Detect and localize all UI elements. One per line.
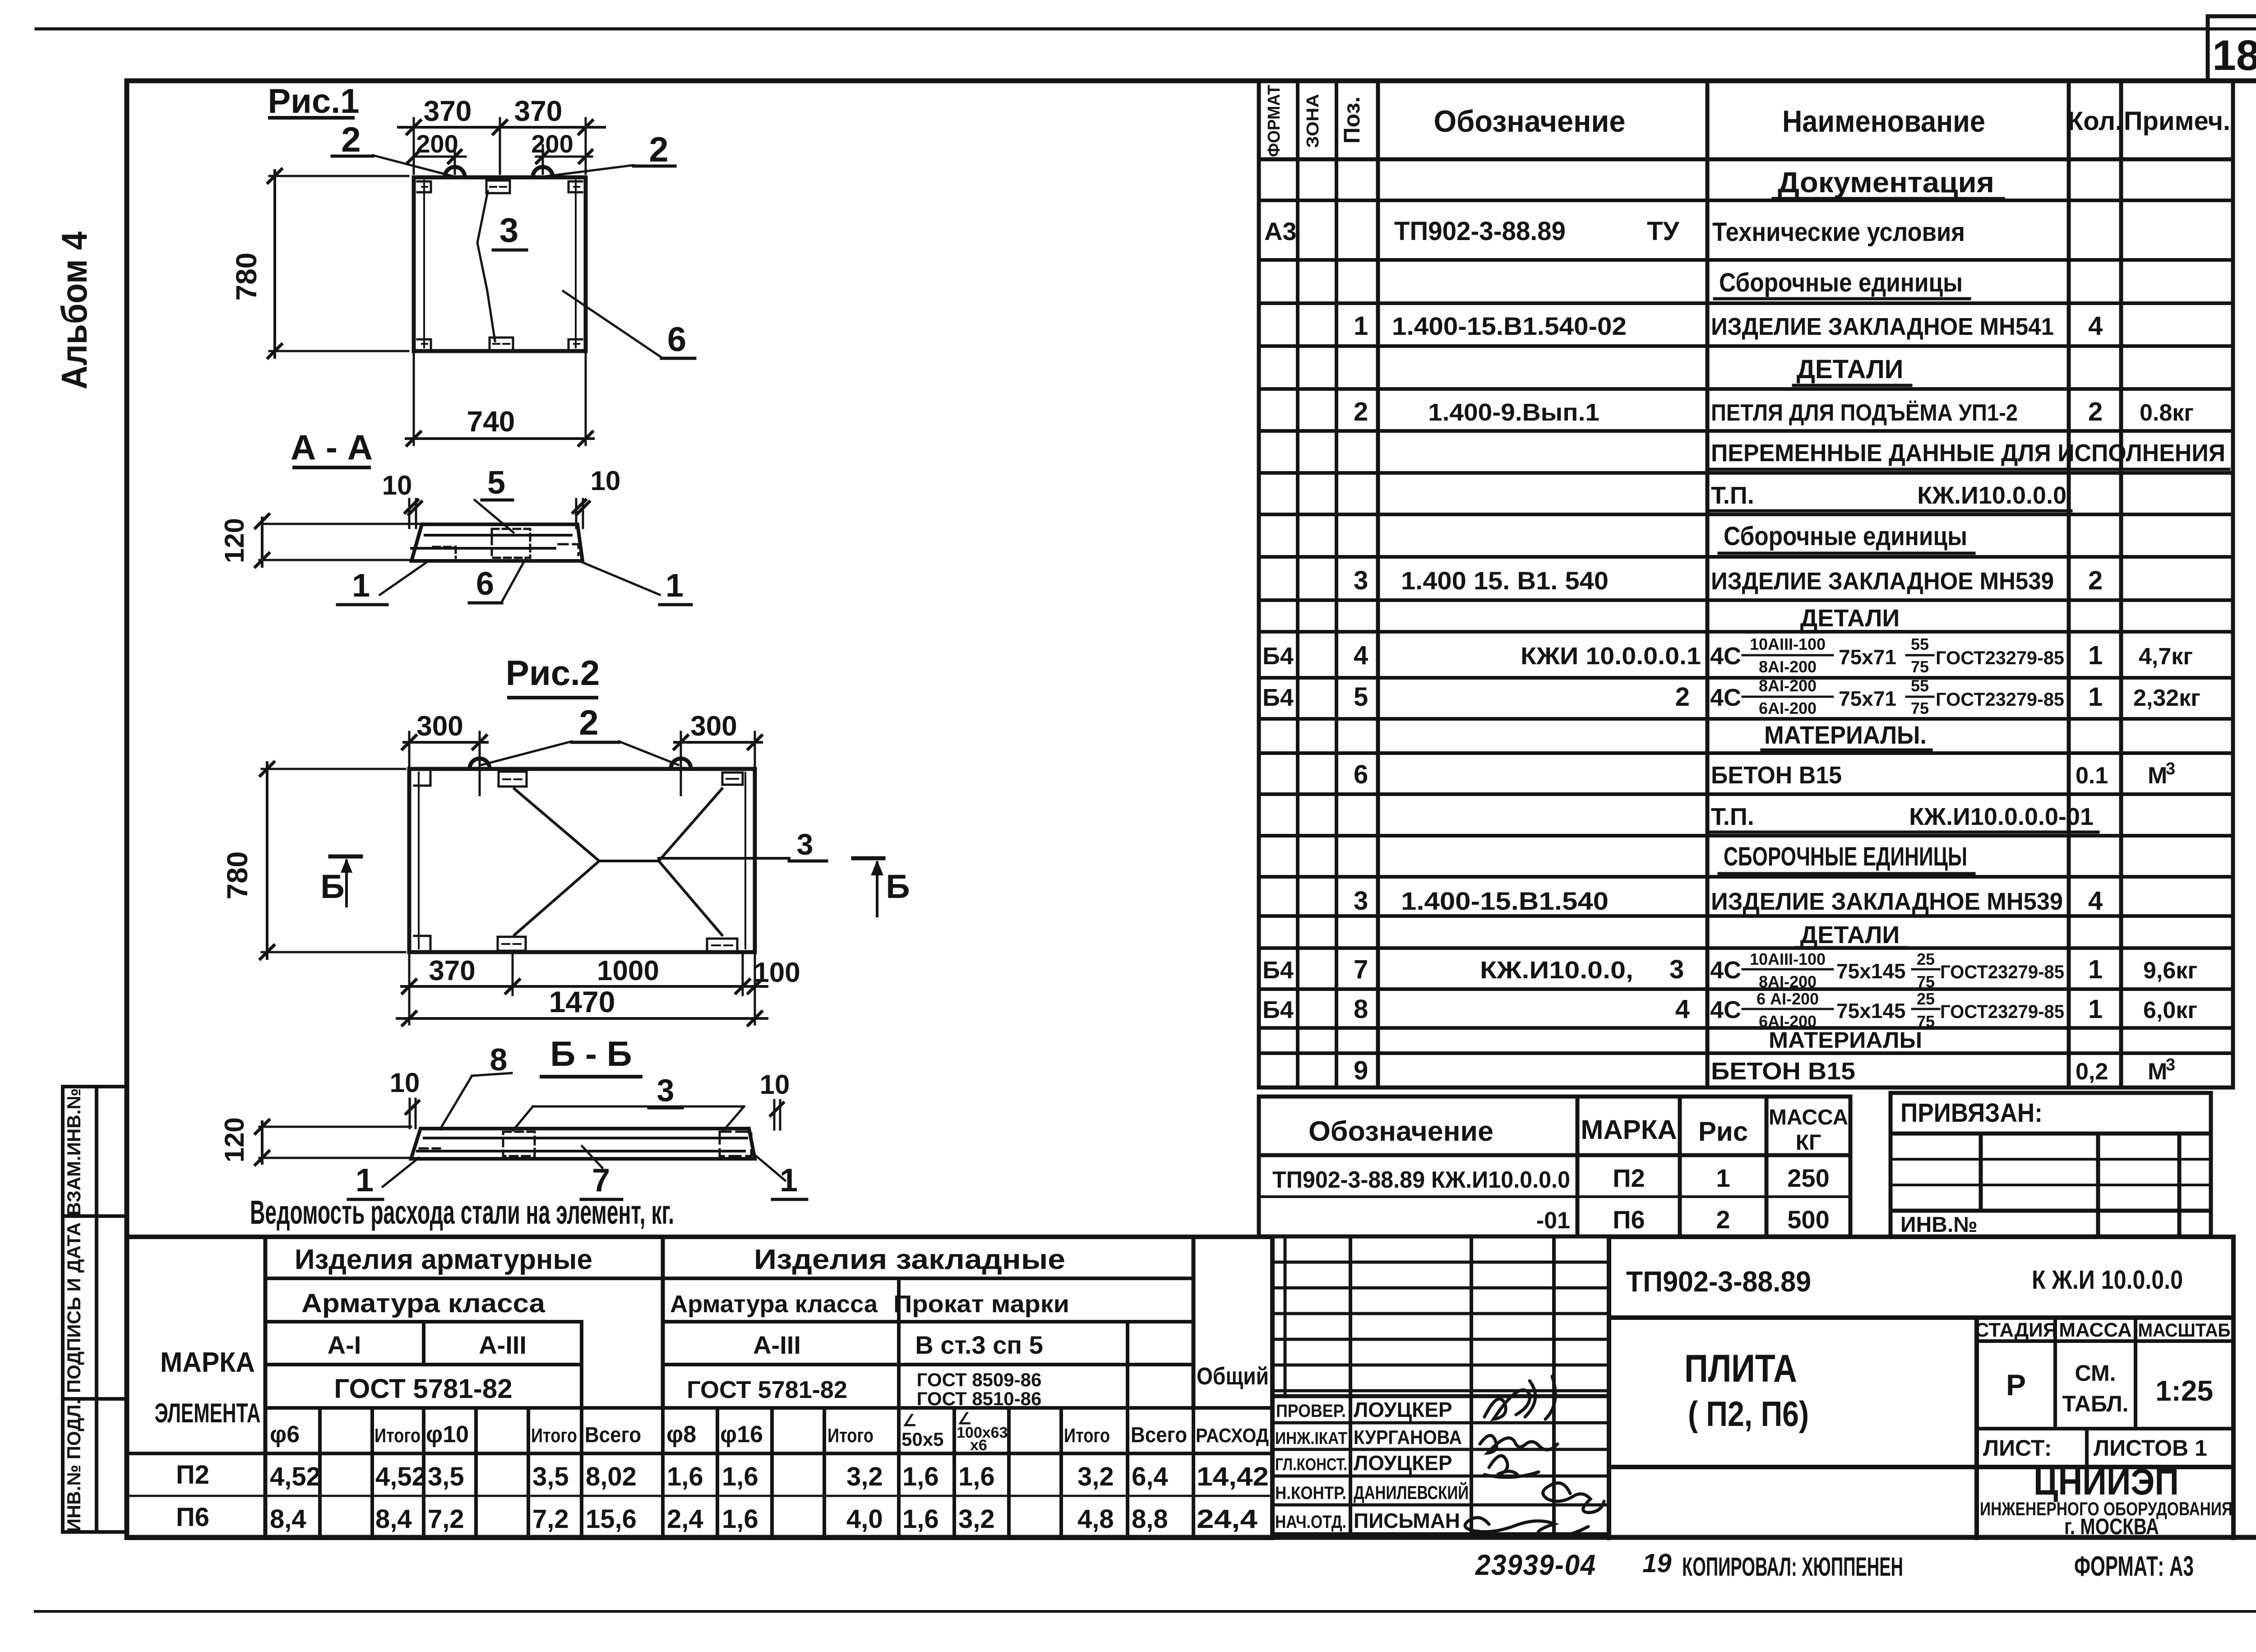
fig1 dim 740 [406, 354, 593, 445]
svg-text:1,6: 1,6 [902, 1504, 939, 1534]
svg-text:П6: П6 [176, 1503, 209, 1532]
privyazan texts [1900, 1098, 2043, 1237]
svg-text:ГОСТ23279-85: ГОСТ23279-85 [1936, 647, 2064, 668]
svg-text:МАССА: МАССА [2059, 1319, 2132, 1341]
svg-text:8АI-200: 8АI-200 [1759, 972, 1817, 991]
svg-text:4,52: 4,52 [270, 1462, 321, 1491]
svg-text:ИЗДЕЛИЕ ЗАКЛАДНОЕ МН539: ИЗДЕЛИЕ ЗАКЛАДНОЕ МН539 [1711, 568, 2054, 595]
svg-text:МАССА: МАССА [1769, 1106, 1848, 1129]
svg-text:М: М [2148, 763, 2167, 789]
svg-text:75х145: 75х145 [1836, 959, 1906, 983]
svg-text:4С: 4С [1710, 643, 1741, 670]
svg-text:КГ: КГ [1796, 1131, 1821, 1155]
svg-text:3,2: 3,2 [958, 1504, 995, 1534]
signature grid lines [1272, 1237, 1609, 1538]
fig2 section marker B left [320, 856, 361, 906]
svg-text:3: 3 [1669, 955, 1684, 984]
svg-text:ГОСТ23279-85: ГОСТ23279-85 [1940, 961, 2064, 982]
svg-text:БЕТОН В15: БЕТОН В15 [1711, 1058, 1855, 1085]
svg-text:300: 300 [690, 711, 737, 742]
svg-text:2,32кг: 2,32кг [2133, 685, 2201, 711]
section A-A label 5 with leader [475, 465, 513, 532]
svg-text:6 АI-200: 6 АI-200 [1757, 990, 1819, 1008]
svg-text:1:25: 1:25 [2155, 1374, 2213, 1407]
spec row: sborochnye edinicy 3 [1719, 842, 1974, 874]
svg-text:φ8: φ8 [666, 1421, 696, 1448]
spec row: pos2 petlya [1354, 397, 2194, 426]
svg-text:φ16: φ16 [720, 1421, 763, 1448]
spec row: beton2 [1354, 1055, 2175, 1085]
fig2 label 2 with tent leader [482, 703, 678, 765]
fig1 dim 200-200 [407, 145, 592, 174]
svg-text:55: 55 [1911, 635, 1929, 653]
svg-text:СМ.: СМ. [2075, 1360, 2116, 1386]
fig2 title [506, 653, 600, 698]
sheet number box 18 [2208, 16, 2256, 81]
left stamp label: podpis i data [63, 1222, 84, 1393]
svg-text:370: 370 [514, 95, 563, 127]
svg-text:ТУ: ТУ [1647, 217, 1679, 246]
section B-B dim 10 right [760, 1069, 790, 1129]
svg-text:В ст.3 сп 5: В ст.3 сп 5 [915, 1331, 1043, 1359]
svg-text:10АIII-100: 10АIII-100 [1750, 635, 1826, 653]
svg-text:ГОСТ 8510-86: ГОСТ 8510-86 [917, 1388, 1042, 1409]
svg-text:3: 3 [1354, 566, 1368, 595]
svg-text:х6: х6 [970, 1437, 987, 1454]
svg-text:Б4: Б4 [1262, 684, 1294, 711]
fig2 dims 370-1000-100 [402, 953, 767, 1024]
svg-text:Б: Б [320, 868, 344, 905]
svg-text:780: 780 [221, 851, 254, 900]
steel table grid [127, 1237, 1272, 1538]
svg-text:Итого: Итого [531, 1425, 577, 1447]
svg-text:ПРОВЕР.: ПРОВЕР. [1276, 1401, 1346, 1421]
svg-text:А-III: А-III [753, 1331, 801, 1359]
svg-text:0,2: 0,2 [2076, 1059, 2108, 1085]
svg-text:Б: Б [886, 868, 910, 905]
svg-text:Общий: Общий [1197, 1363, 1269, 1390]
svg-text:4,7кг: 4,7кг [2139, 643, 2193, 670]
fig1 label 2 left with leader [332, 120, 452, 176]
svg-text:Обозначение: Обозначение [1308, 1116, 1493, 1147]
steel table title [250, 1194, 674, 1231]
svg-text:Сборочные единицы: Сборочные единицы [1719, 268, 1963, 297]
svg-text:КЖ.И10.0.0,: КЖ.И10.0.0, [1480, 957, 1633, 984]
svg-text:( П2, П6): ( П2, П6) [1688, 1394, 1809, 1434]
section B-B label 8 [440, 1042, 512, 1129]
svg-text:Итого: Итого [1064, 1425, 1110, 1447]
svg-text:Всего: Всего [585, 1423, 641, 1447]
svg-text:8АI-200: 8АI-200 [1759, 676, 1817, 695]
svg-text:ТП902-3-88.89 КЖ.И10.0.0.0: ТП902-3-88.89 КЖ.И10.0.0.0 [1272, 1167, 1570, 1193]
svg-text:2: 2 [1716, 1205, 1730, 1234]
fig2 dim 300 right [674, 732, 762, 795]
svg-text:Рис: Рис [1698, 1116, 1748, 1147]
spec row: dokumentaciya [1773, 166, 2003, 199]
svg-text:7,2: 7,2 [428, 1504, 464, 1534]
svg-text:3,5: 3,5 [428, 1462, 464, 1491]
left stamp label: vzam inv [63, 1088, 84, 1216]
svg-text:Рис.2: Рис.2 [506, 653, 600, 693]
spec row: TP KJI10000-01 [1710, 803, 2098, 832]
svg-text:4,8: 4,8 [1077, 1504, 1114, 1534]
svg-text:ЗОНА: ЗОНА [1304, 94, 1322, 148]
svg-text:500: 500 [1787, 1205, 1829, 1234]
svg-text:φ6: φ6 [270, 1421, 300, 1448]
svg-text:Н.КОНТР.: Н.КОНТР. [1275, 1483, 1346, 1503]
svg-text:ГОСТ 5781-82: ГОСТ 5781-82 [334, 1374, 512, 1404]
svg-text:3,5: 3,5 [532, 1462, 569, 1491]
spec row: peremennye dannye [1710, 440, 2229, 469]
svg-text:10АIII-100: 10АIII-100 [1750, 950, 1826, 968]
svg-text:19: 19 [1642, 1549, 1672, 1578]
svg-text:1,6: 1,6 [958, 1462, 995, 1491]
fig2 plate outline [409, 769, 755, 952]
svg-text:КОПИРОВАЛ: ХЮППЕНЕН: КОПИРОВАЛ: ХЮППЕНЕН [1682, 1552, 1903, 1582]
svg-text:П6: П6 [1613, 1205, 1645, 1234]
steel table phi row [270, 1363, 1269, 1454]
svg-text:200: 200 [416, 130, 458, 158]
top scan edge line [36, 28, 2256, 31]
svg-text:3: 3 [2166, 1055, 2175, 1074]
svg-text:А - А: А - А [291, 427, 373, 467]
fig2 embedded pads [498, 772, 743, 952]
svg-text:23939-04: 23939-04 [1475, 1549, 1596, 1581]
svg-text:ИЗДЕЛИЕ ЗАКЛАДНОЕ МН539: ИЗДЕЛИЕ ЗАКЛАДНОЕ МН539 [1711, 888, 2063, 915]
svg-text:4С: 4С [1710, 957, 1741, 984]
svg-text:300: 300 [416, 711, 463, 742]
svg-text:П2: П2 [1613, 1164, 1645, 1192]
fig2 dim 300 left [402, 732, 487, 795]
svg-text:Альбом 4: Альбом 4 [54, 231, 94, 389]
spec row: pos3b MN539 [1354, 886, 2103, 916]
fig1 label 3 with leader [477, 191, 527, 341]
svg-text:0.1: 0.1 [2076, 763, 2108, 789]
svg-text:ВЗАМ.ИНВ.№: ВЗАМ.ИНВ.№ [63, 1088, 84, 1216]
svg-text:ГОСТ23279-85: ГОСТ23279-85 [1936, 689, 2064, 710]
section A-A label 1 left [337, 561, 429, 605]
svg-text:Т.П.: Т.П. [1711, 803, 1754, 830]
svg-text:1: 1 [2088, 995, 2103, 1024]
svg-text:8: 8 [1354, 995, 1368, 1024]
svg-text:2: 2 [2088, 397, 2103, 426]
svg-text:50х5: 50х5 [901, 1429, 943, 1450]
fig1 lifting loops [445, 167, 553, 177]
svg-text:Кол.: Кол. [2067, 106, 2122, 136]
fig2 section marker B right [853, 858, 910, 916]
svg-text:Б4: Б4 [1262, 996, 1294, 1023]
svg-text:Р: Р [2006, 1368, 2026, 1402]
svg-text:ТП902-3-88.89: ТП902-3-88.89 [1394, 217, 1566, 246]
svg-text:10: 10 [591, 466, 621, 496]
svg-text:Изделия арматурные: Изделия арматурные [295, 1244, 592, 1275]
signature squiggles [1465, 1376, 1604, 1537]
svg-text:ИНВ.№ ПОДЛ.: ИНВ.№ ПОДЛ. [63, 1399, 84, 1532]
svg-text:1.400-15.В1.540-02: 1.400-15.В1.540-02 [1392, 312, 1627, 340]
svg-text:75х71: 75х71 [1839, 645, 1896, 669]
svg-text:14,42: 14,42 [1197, 1462, 1269, 1491]
svg-text:Б - Б: Б - Б [550, 1034, 632, 1074]
svg-text:МАТЕРИАЛЫ: МАТЕРИАЛЫ [1769, 1027, 1922, 1053]
title block grid [1609, 1237, 2233, 1538]
svg-text:ДЕТАЛИ: ДЕТАЛИ [1800, 605, 1900, 632]
svg-text:1000: 1000 [597, 955, 659, 986]
svg-text:ТАБЛ.: ТАБЛ. [2062, 1391, 2128, 1416]
svg-text:1.400-15.В1.540: 1.400-15.В1.540 [1401, 887, 1609, 915]
svg-text:Всего: Всего [1131, 1423, 1187, 1447]
svg-text:Изделия закладные: Изделия закладные [754, 1244, 1065, 1275]
svg-text:ПЕРЕМЕННЫЕ ДАННЫЕ ДЛЯ ИСПОЛНЕН: ПЕРЕМЕННЫЕ ДАННЫЕ ДЛЯ ИСПОЛНЕНИЯ [1711, 440, 2225, 467]
svg-text:ДЕТАЛИ: ДЕТАЛИ [1797, 355, 1904, 384]
svg-text:4: 4 [2088, 886, 2103, 916]
svg-text:2: 2 [579, 703, 598, 742]
svg-text:10: 10 [760, 1069, 790, 1100]
spec row: TP KJI10000 [1710, 482, 2071, 511]
spec row: tehnicheskie usloviya [1264, 217, 1965, 247]
svg-text:25: 25 [1917, 950, 1935, 968]
svg-text:Рис.1: Рис.1 [268, 82, 359, 120]
svg-text:2: 2 [1675, 682, 1690, 712]
svg-text:φ10: φ10 [426, 1421, 469, 1448]
svg-text:∠: ∠ [957, 1409, 972, 1428]
svg-text:ЛИСТ:: ЛИСТ: [1983, 1435, 2052, 1461]
svg-text:250: 250 [1787, 1164, 1829, 1192]
svg-text:0.8кг: 0.8кг [2140, 400, 2194, 426]
svg-text:1: 1 [2088, 682, 2103, 712]
svg-text:РАСХОД: РАСХОД [1196, 1425, 1269, 1447]
svg-text:4С: 4С [1710, 684, 1741, 711]
svg-text:ПРИВЯЗАН:: ПРИВЯЗАН: [1900, 1098, 2043, 1128]
svg-text:6: 6 [1354, 760, 1368, 789]
spec row: pos5 [1262, 676, 2201, 717]
fig2 dim 1470 [397, 1012, 767, 1025]
svg-text:8: 8 [490, 1042, 508, 1077]
footer line texts [1475, 1549, 2194, 1582]
svg-text:КЖИ 10.0.0.0.1: КЖИ 10.0.0.0.1 [1521, 643, 1701, 670]
svg-text:6,0кг: 6,0кг [2143, 997, 2197, 1023]
svg-text:1: 1 [1354, 311, 1368, 341]
spec row: pos1 MN541 [1354, 311, 2103, 341]
signature labels [1275, 1398, 1469, 1532]
svg-text:Документация: Документация [1778, 166, 1994, 199]
svg-text:15,6: 15,6 [586, 1504, 637, 1534]
fig1 title [268, 82, 359, 120]
svg-text:8,8: 8,8 [1132, 1504, 1168, 1534]
svg-text:25: 25 [1917, 990, 1935, 1008]
svg-text:Арматура класса: Арматура класса [670, 1291, 878, 1318]
svg-text:24,4: 24,4 [1197, 1504, 1257, 1534]
svg-text:ГОСТ 8509-86: ГОСТ 8509-86 [917, 1369, 1042, 1390]
svg-text:Арматура класса: Арматура класса [301, 1289, 546, 1318]
svg-text:1.400-9.Вып.1: 1.400-9.Вып.1 [1428, 399, 1600, 426]
fig2 diagonals [514, 789, 789, 935]
svg-text:Наименование: Наименование [1782, 104, 1985, 139]
svg-text:7,2: 7,2 [532, 1504, 569, 1534]
spec row: materialy 2 [1766, 1027, 1927, 1053]
svg-text:ЛОУЦКЕР: ЛОУЦКЕР [1354, 1451, 1452, 1475]
svg-text:1,6: 1,6 [722, 1462, 758, 1491]
svg-text:СТАДИЯ: СТАДИЯ [1975, 1319, 2057, 1341]
album label (rotated) [54, 231, 94, 389]
spec row: detali 1 [1794, 355, 1911, 385]
svg-text:75х145: 75х145 [1836, 999, 1906, 1023]
svg-text:10: 10 [382, 470, 412, 500]
svg-text:6,4: 6,4 [1132, 1462, 1168, 1491]
svg-text:120: 120 [219, 518, 250, 563]
svg-text:ГЛ.КОНСТ.: ГЛ.КОНСТ. [1275, 1455, 1347, 1474]
svg-text:ПЕТЛЯ ДЛЯ ПОДЪЁМА УП1-2: ПЕТЛЯ ДЛЯ ПОДЪЁМА УП1-2 [1711, 400, 2018, 426]
svg-text:1,6: 1,6 [667, 1462, 703, 1491]
svg-text:ГОСТ 5781-82: ГОСТ 5781-82 [687, 1376, 847, 1403]
svg-text:А-I: А-I [328, 1331, 361, 1359]
svg-text:ДЕТАЛИ: ДЕТАЛИ [1800, 921, 1900, 949]
svg-text:4,0: 4,0 [846, 1504, 883, 1534]
steel table header texts [155, 1244, 1070, 1428]
svg-text:ЛОУЦКЕР: ЛОУЦКЕР [1354, 1398, 1452, 1421]
svg-text:Т.П.: Т.П. [1711, 482, 1754, 509]
svg-text:3: 3 [797, 828, 814, 861]
svg-text:ПОДПИСЬ И ДАТА: ПОДПИСЬ И ДАТА [63, 1222, 84, 1393]
svg-text:1.400 15. В1. 540: 1.400 15. В1. 540 [1401, 566, 1609, 595]
svg-text:5: 5 [1354, 682, 1368, 712]
svg-text:ФОРМАТ: А3: ФОРМАТ: А3 [2074, 1551, 2194, 1582]
svg-text:370: 370 [429, 955, 475, 986]
svg-text:9: 9 [1354, 1056, 1368, 1085]
section A-A dim 120 [255, 514, 420, 567]
steel table data rows [176, 1460, 1269, 1534]
svg-text:75х71: 75х71 [1839, 687, 1896, 710]
bottom scan edge line [35, 1610, 2256, 1613]
svg-text:8АI-200: 8АI-200 [1759, 657, 1817, 676]
svg-text:10: 10 [390, 1068, 420, 1098]
fig1 dim 370-370 [398, 118, 605, 174]
svg-text:МАТЕРИАЛЫ.: МАТЕРИАЛЫ. [1764, 721, 1927, 749]
spec row: detali 3 [1796, 921, 1906, 949]
svg-text:МАСШТАБ: МАСШТАБ [2138, 1319, 2231, 1341]
spec row: pos7 [1262, 950, 2197, 991]
svg-text:Обозначение: Обозначение [1434, 104, 1626, 139]
svg-text:1: 1 [666, 568, 684, 604]
spec table grid [1259, 81, 2233, 1087]
svg-text:МАРКА: МАРКА [1581, 1115, 1677, 1145]
svg-text:Б4: Б4 [1262, 643, 1294, 670]
svg-text:3: 3 [2166, 759, 2175, 778]
svg-text:3: 3 [1354, 886, 1368, 916]
svg-text:ТП902-3-88.89: ТП902-3-88.89 [1626, 1265, 1811, 1298]
svg-text:КЖ.И10.0.0.0: КЖ.И10.0.0.0 [1917, 482, 2066, 509]
svg-text:МАРКА: МАРКА [160, 1347, 255, 1378]
svg-text:7: 7 [1354, 955, 1368, 984]
left margin stamp boxes [63, 1087, 127, 1532]
fig2 dim 780 [260, 762, 405, 959]
svg-text:ЛИСТОВ 1: ЛИСТОВ 1 [2094, 1435, 2207, 1461]
svg-text:Б4: Б4 [1262, 957, 1294, 984]
svg-text:18: 18 [2212, 32, 2256, 79]
svg-text:3,2: 3,2 [846, 1462, 883, 1491]
svg-text:75: 75 [1911, 657, 1929, 676]
fig1 plate outline [414, 177, 586, 351]
svg-text:2,4: 2,4 [667, 1504, 703, 1534]
svg-text:75: 75 [1917, 972, 1935, 991]
svg-text:ФОРМАТ: ФОРМАТ [1265, 85, 1284, 157]
privyazan box [1891, 1093, 2211, 1236]
svg-text:5: 5 [487, 465, 505, 501]
svg-text:4: 4 [2088, 311, 2103, 341]
svg-text:1: 1 [2088, 641, 2103, 670]
fig1 embedded pads [417, 180, 582, 350]
svg-text:4С: 4С [1710, 996, 1741, 1023]
section B-B label 3 [513, 1073, 744, 1131]
section A-A slab [411, 524, 582, 561]
svg-text:1: 1 [1716, 1164, 1730, 1192]
fig1 label 6 with leader [563, 291, 695, 359]
svg-text:Итого: Итого [828, 1425, 874, 1447]
svg-text:ПЛИТА: ПЛИТА [1684, 1347, 1797, 1390]
svg-text:200: 200 [531, 130, 573, 158]
oboznachenie-marka table texts [1272, 1106, 1848, 1234]
svg-text:Примеч.: Примеч. [2124, 106, 2230, 136]
spec table header texts [1265, 85, 2230, 157]
svg-text:П2: П2 [176, 1460, 209, 1490]
fig1 label 2 right with leader [545, 130, 675, 176]
svg-text:3: 3 [657, 1073, 675, 1108]
svg-text:3: 3 [499, 211, 518, 250]
svg-text:6: 6 [476, 566, 494, 602]
section B-B dim 120 [255, 1120, 411, 1165]
svg-text:К Ж.И 10.0.0.0: К Ж.И 10.0.0.0 [2032, 1265, 2183, 1295]
svg-text:1,6: 1,6 [902, 1462, 939, 1491]
section A-A label 1 right [581, 562, 691, 605]
fig2 corner brackets [414, 772, 430, 949]
section A-A title [291, 427, 373, 467]
section B-B dim 10 left [390, 1068, 420, 1128]
spec row: beton1 [1354, 759, 2175, 789]
svg-text:ПИСЬМАН: ПИСЬМАН [1354, 1509, 1460, 1532]
left stamp label: inv no podl [63, 1399, 84, 1532]
section B-B label 1 right [756, 1156, 807, 1199]
svg-text:г. МОСКВА: г. МОСКВА [2064, 1514, 2159, 1539]
svg-text:1: 1 [352, 568, 370, 604]
svg-text:Сборочные единицы: Сборочные единицы [1724, 522, 1967, 551]
svg-text:Поз.: Поз. [1339, 97, 1364, 144]
svg-text:740: 740 [467, 405, 515, 438]
svg-text:2: 2 [341, 120, 361, 159]
title block texts [1626, 1265, 2233, 1539]
spec row: detali 2 [1796, 605, 1906, 632]
spec row: sborochnye edinicy 1 [1715, 268, 1969, 299]
svg-text:-01: -01 [1536, 1208, 1570, 1234]
section A-A dim 10 left [382, 470, 421, 528]
svg-text:ИНЖ.IКАТ: ИНЖ.IКАТ [1275, 1429, 1347, 1448]
svg-text:1,6: 1,6 [722, 1504, 758, 1534]
svg-text:4,52: 4,52 [375, 1462, 426, 1491]
svg-text:2: 2 [1354, 397, 1368, 426]
svg-text:1: 1 [780, 1162, 798, 1199]
spec row: materialy 1 [1762, 721, 1931, 750]
fig1 dim 780 [268, 169, 408, 358]
svg-text:370: 370 [424, 95, 472, 127]
svg-text:8,4: 8,4 [270, 1504, 306, 1534]
section B-B label 1 left [348, 1158, 419, 1199]
section A-A dim 10 right [573, 466, 620, 528]
svg-text:М: М [2148, 1059, 2167, 1085]
svg-text:ГОСТ23279-85: ГОСТ23279-85 [1940, 1001, 2064, 1022]
fig2 lifting loops [470, 759, 691, 768]
svg-text:ДАНИЛЕВСКИЙ: ДАНИЛЕВСКИЙ [1354, 1481, 1469, 1503]
spec row: pos8 [1262, 990, 2197, 1031]
svg-text:Технические условия: Технические условия [1712, 217, 1965, 247]
svg-text:1470: 1470 [549, 985, 615, 1018]
